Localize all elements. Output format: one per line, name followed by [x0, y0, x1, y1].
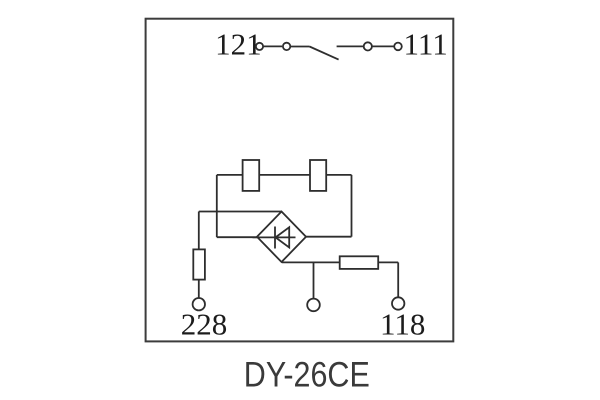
wire down to terminal 118: [397, 262, 399, 297]
svg-text:118: 118: [380, 307, 425, 342]
coil loop top wire: [217, 174, 352, 176]
terminal circle 111: [394, 43, 402, 51]
wire resistor to terminal 228: [198, 280, 200, 298]
wire junction down to middle terminal: [313, 262, 315, 298]
middle terminal circle: [307, 299, 320, 312]
diode cathode bar: [274, 227, 276, 249]
diode axis line: [253, 236, 296, 238]
switch blade: [310, 47, 339, 60]
diode triangle: [276, 227, 290, 247]
coil loop right wire: [351, 175, 353, 237]
wire diamond bottom to resistor R4: [282, 261, 340, 263]
resistor R1: [243, 160, 260, 191]
terminal circle 121: [256, 43, 263, 50]
resistor R3: [193, 249, 205, 279]
rectifier diamond: [257, 212, 306, 263]
svg-text:111: 111: [404, 26, 448, 61]
resistor R2: [310, 160, 326, 191]
svg-text:121: 121: [215, 26, 262, 61]
svg-text:DY-26CE: DY-26CE: [244, 356, 370, 395]
wire loop bottom-left to diamond: [217, 236, 258, 238]
contact circle (fixed): [364, 42, 372, 50]
wire: [337, 45, 363, 47]
wire: [264, 45, 283, 47]
wire: [373, 45, 394, 47]
wire down to resistor R3: [198, 212, 200, 250]
coil loop left wire: [216, 175, 218, 237]
resistor R4: [340, 256, 379, 269]
wire: [291, 46, 310, 48]
svg-text:228: 228: [181, 307, 228, 342]
wire resistor R4 to right corner: [378, 261, 398, 263]
wire to diamond top: [199, 211, 281, 213]
relay case outline: [146, 19, 454, 342]
terminal circle 228: [193, 298, 205, 310]
contact circle (moving): [283, 43, 290, 50]
terminal circle 118: [392, 297, 404, 309]
wire diamond to loop bottom-right: [306, 236, 352, 238]
